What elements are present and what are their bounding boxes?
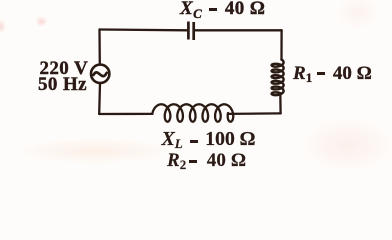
capacitor C (Xc) left plate	[187, 22, 190, 40]
wire bottom-left horizontal	[99, 113, 152, 115]
wire top-left horizontal	[100, 28, 187, 31]
label 220 V	[40, 58, 89, 80]
AC source sine symbol	[93, 72, 106, 76]
wire left branch lower	[98, 83, 101, 114]
scan smudges	[35, 16, 48, 27]
resistor R1 coil	[272, 60, 284, 96]
wire top-right horizontal	[196, 29, 282, 31]
inductor L (XL, R2) coil	[153, 104, 234, 121]
wire right branch lower	[279, 94, 282, 114]
label 50 Hz	[38, 74, 87, 96]
label Xc = 40 ohm	[180, 0, 265, 20]
label XL = 100 ohm	[162, 128, 256, 151]
label R2 = 40 ohm	[167, 150, 246, 172]
label R1 = 40 ohm	[293, 63, 372, 85]
wire right branch upper	[280, 30, 282, 59]
capacitor C (Xc) right plate	[192, 22, 195, 40]
AC source V1 circle	[91, 65, 109, 83]
wire bottom-right horizontal	[228, 112, 281, 115]
wire left branch upper	[98, 30, 101, 65]
